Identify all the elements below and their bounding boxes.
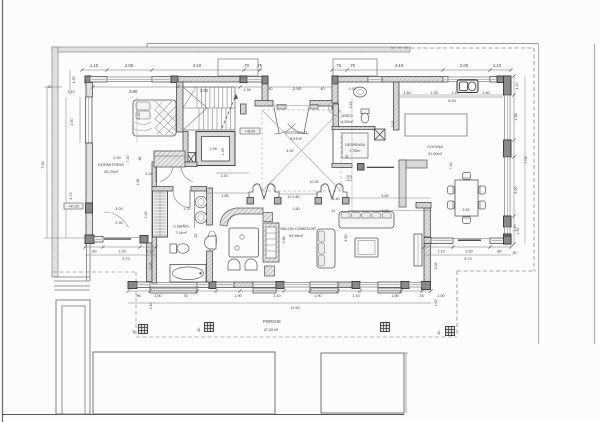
svg-text:7.06: 7.06 — [524, 156, 528, 163]
svg-text:4.10: 4.10 — [395, 63, 404, 68]
svg-text:2.82: 2.82 — [200, 88, 209, 93]
svg-text:1.00: 1.00 — [154, 294, 161, 298]
svg-text:4,39m²: 4,39m² — [341, 120, 354, 124]
svg-text:1.00: 1.00 — [346, 175, 350, 182]
svg-text:DESPENSA: DESPENSA — [345, 143, 365, 147]
svg-text:4.50: 4.50 — [344, 234, 348, 241]
svg-text:1.60: 1.60 — [403, 91, 410, 95]
svg-text:1.05: 1.05 — [430, 91, 437, 95]
svg-text:2.25: 2.25 — [349, 102, 353, 109]
svg-text:.80: .80 — [91, 250, 96, 254]
svg-text:1.10: 1.10 — [437, 250, 444, 254]
svg-text:SALON COMEDOR: SALON COMEDOR — [280, 226, 316, 231]
svg-text:3.00: 3.00 — [514, 186, 518, 193]
svg-text:12.60: 12.60 — [290, 306, 300, 310]
svg-text:.20: .20 — [194, 234, 198, 239]
svg-text:4.73: 4.73 — [69, 192, 73, 199]
svg-text:2.00: 2.00 — [460, 63, 469, 68]
svg-text:7.30: 7.30 — [126, 156, 130, 163]
svg-text:1.30: 1.30 — [220, 174, 227, 178]
svg-text:4.10: 4.10 — [193, 63, 202, 68]
svg-text:7,14m²: 7,14m² — [175, 231, 188, 235]
svg-text:C.BAÑO: C.BAÑO — [173, 224, 188, 229]
svg-text:10.26: 10.26 — [310, 180, 319, 184]
svg-text:.96: .96 — [135, 294, 140, 298]
svg-text:1.60: 1.60 — [465, 250, 472, 254]
svg-text:.90: .90 — [345, 155, 349, 160]
svg-text:1.90: 1.90 — [234, 294, 241, 298]
svg-text:5.42: 5.42 — [145, 172, 152, 176]
svg-text:.40: .40 — [268, 87, 273, 91]
svg-text:1.98: 1.98 — [514, 113, 518, 120]
svg-text:3.00: 3.00 — [115, 207, 122, 211]
svg-text:1.60: 1.60 — [434, 300, 438, 307]
svg-text:31,00m²: 31,00m² — [428, 152, 443, 156]
svg-text:PORCHE: PORCHE — [263, 319, 281, 324]
svg-text:1.85: 1.85 — [221, 194, 228, 198]
svg-text:.30: .30 — [512, 251, 517, 255]
svg-text:1.98: 1.98 — [136, 179, 140, 186]
svg-text:1.10: 1.10 — [493, 63, 502, 68]
svg-text:1.30: 1.30 — [516, 228, 520, 235]
svg-text:.75: .75 — [256, 63, 263, 68]
svg-text:2.00: 2.00 — [125, 63, 134, 68]
svg-text:COCINA: COCINA — [427, 144, 443, 149]
svg-text:DORMITORIO: DORMITORIO — [98, 162, 124, 167]
svg-text:2.00: 2.00 — [70, 118, 74, 125]
svg-text:.10 1.80: .10 1.80 — [287, 195, 300, 199]
svg-text:3.25: 3.25 — [137, 112, 141, 119]
svg-text:1.25: 1.25 — [72, 77, 76, 84]
svg-text:.70: .70 — [243, 63, 250, 68]
svg-text:1.10: 1.10 — [68, 90, 75, 94]
svg-text:9,57m²: 9,57m² — [290, 137, 303, 141]
svg-text:1.10: 1.10 — [90, 63, 99, 68]
svg-text:20,70m²: 20,70m² — [104, 170, 119, 174]
svg-text:1.00: 1.00 — [118, 250, 125, 254]
svg-text:3.83: 3.83 — [381, 194, 388, 198]
svg-text:.40: .40 — [437, 331, 441, 336]
svg-text:3.98: 3.98 — [282, 237, 286, 244]
svg-text:1.92: 1.92 — [348, 87, 355, 91]
svg-text:1.40: 1.40 — [332, 197, 339, 201]
svg-text:.75: .75 — [335, 63, 342, 68]
svg-text:3.80: 3.80 — [129, 89, 138, 94]
svg-text:.78: .78 — [418, 294, 423, 298]
svg-text:1.60: 1.60 — [292, 207, 299, 211]
svg-text:+47.20: +47.20 — [68, 205, 78, 209]
svg-text:1.20: 1.20 — [515, 82, 519, 89]
svg-text:1.40: 1.40 — [451, 91, 458, 95]
svg-text:47,33 m²: 47,33 m² — [264, 328, 279, 332]
svg-text:2.90: 2.90 — [115, 221, 122, 225]
svg-text:1.39: 1.39 — [243, 88, 250, 92]
svg-text:2,70m²: 2,70m² — [350, 149, 362, 153]
svg-text:7.06: 7.06 — [41, 161, 45, 168]
svg-text:.76: .76 — [182, 294, 187, 298]
svg-text:1.10: 1.10 — [352, 294, 359, 298]
svg-text:3.70: 3.70 — [122, 257, 129, 261]
svg-text:1.00: 1.00 — [437, 294, 444, 298]
svg-text:.40: .40 — [132, 330, 136, 335]
svg-text:1.10: 1.10 — [273, 294, 280, 298]
svg-text:2.08: 2.08 — [149, 263, 153, 270]
svg-text:2.25: 2.25 — [144, 212, 148, 219]
svg-text:.46: .46 — [138, 157, 142, 162]
svg-text:+45,45: +45,45 — [245, 130, 255, 134]
svg-text:3.83: 3.83 — [381, 209, 388, 213]
svg-text:1.40: 1.40 — [149, 303, 153, 310]
svg-text:1.70: 1.70 — [183, 207, 190, 211]
svg-text:1.90: 1.90 — [314, 294, 321, 298]
svg-text:4.92: 4.92 — [286, 149, 293, 153]
svg-text:1.55: 1.55 — [209, 147, 216, 151]
svg-text:3.70: 3.70 — [464, 257, 471, 261]
svg-text:3.05: 3.05 — [391, 121, 395, 128]
svg-text:3.42: 3.42 — [462, 208, 469, 212]
svg-text:6.00: 6.00 — [448, 99, 455, 103]
svg-text:ASEO: ASEO — [341, 113, 352, 118]
svg-text:.80: .80 — [496, 250, 501, 254]
svg-text:.41: .41 — [331, 209, 336, 213]
svg-text:.40: .40 — [197, 328, 201, 333]
svg-text:.70: .70 — [349, 63, 356, 68]
svg-text:1.45: 1.45 — [221, 148, 225, 155]
svg-text:1.90: 1.90 — [391, 294, 398, 298]
svg-text:2.00: 2.00 — [113, 156, 120, 160]
svg-text:2.08: 2.08 — [434, 263, 438, 270]
svg-text:VESTIBULO: VESTIBULO — [285, 130, 307, 135]
svg-text:1.80: 1.80 — [482, 91, 489, 95]
svg-text:54,96m²: 54,96m² — [289, 234, 304, 238]
svg-text:.40: .40 — [320, 87, 325, 91]
svg-text:1.10: 1.10 — [146, 250, 153, 254]
svg-text:7.20: 7.20 — [449, 163, 453, 170]
